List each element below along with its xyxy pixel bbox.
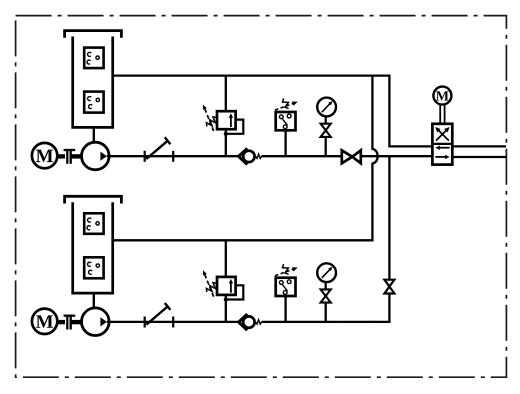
interconnect shut-off valve (vertical) xyxy=(384,280,394,287)
pressure line 1 after check valve xyxy=(262,155,342,157)
pressure switch 2 branch xyxy=(284,296,286,322)
relief valve 2 branch line xyxy=(225,240,227,277)
pressure gauge 1 branch xyxy=(325,137,327,156)
electric motor M2 xyxy=(32,309,57,334)
filter element 2b xyxy=(84,257,103,278)
suction line 2 (tank to pump) xyxy=(93,293,95,309)
relief valve 2 xyxy=(217,277,236,295)
check valve 1 xyxy=(239,148,248,164)
pressure gauge 2 branch xyxy=(325,303,327,322)
relief valve 1 pilot line xyxy=(226,120,244,134)
pressure line 1 to directional valve xyxy=(361,155,433,157)
hydraulic pump P1 xyxy=(82,142,110,170)
pressure switch 1 adjust xyxy=(283,98,289,108)
relief valve 1 xyxy=(217,111,236,129)
valve actuator stem xyxy=(439,105,441,124)
directional valve body xyxy=(432,124,452,165)
pressure switch 2 xyxy=(276,278,296,296)
junction pressure headers xyxy=(388,156,390,280)
pressure line 2 (pump outlet) xyxy=(107,321,239,323)
shut-off valve (pressure line 1) xyxy=(342,150,353,163)
check valve 2 xyxy=(239,314,248,330)
relief valve 1 spring xyxy=(206,117,216,127)
pressure switch 2 adjust xyxy=(283,264,289,274)
coupling 2 xyxy=(57,320,65,324)
relief valve 1 branch line xyxy=(225,76,227,112)
relief valve 2 spring xyxy=(206,283,216,293)
reservoir bracket 1 xyxy=(65,31,122,38)
filter element 1a xyxy=(84,48,103,69)
relief valve 2 pilot line xyxy=(226,285,244,299)
pressure line 2 segment xyxy=(342,321,370,323)
reservoir tank 2 xyxy=(73,202,113,293)
pressure switch 1 xyxy=(276,112,296,130)
tank return header (unit 1 to valve) xyxy=(113,76,433,147)
gauge isolator valve 2 xyxy=(321,289,331,296)
tank line interconnect (vertical with crossover jump) xyxy=(114,76,378,241)
suction line 1 (tank to pump) xyxy=(93,127,95,143)
pressure gauge 1 xyxy=(317,98,336,117)
valve outlet lines xyxy=(452,145,506,147)
relief valve 2 adjust arrow xyxy=(204,273,213,296)
valve position b (parallel) xyxy=(439,147,450,149)
pressure switch 1 branch xyxy=(284,130,286,156)
reservoir bracket 2 xyxy=(65,196,122,203)
valve motor M3 xyxy=(433,87,451,105)
stop valve 1 xyxy=(144,151,146,162)
pressure line 1 (pump outlet) xyxy=(107,155,239,157)
filter element 2a xyxy=(84,213,103,234)
valve position a (crossed) xyxy=(436,129,448,141)
reservoir tank 1 xyxy=(73,37,113,128)
pressure gauge 2 xyxy=(317,263,336,282)
stop valve 2 xyxy=(144,317,146,328)
filter element 1b xyxy=(84,92,103,113)
electric motor M1 xyxy=(32,143,57,168)
pressure line 2 riser xyxy=(369,294,389,322)
hydraulic pump P2 xyxy=(82,308,110,336)
coupling 1 xyxy=(57,154,65,158)
gauge isolator valve 1 xyxy=(321,124,331,131)
pressure line 2 after check valve xyxy=(262,321,342,323)
relief valve 1 adjust arrow xyxy=(204,108,213,131)
